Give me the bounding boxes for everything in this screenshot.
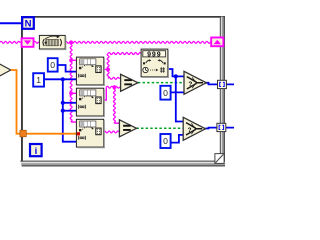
wire: constant 0 to select2 false input [171,135,184,143]
wire: node1 output down to equal1 top input [107,69,109,78]
svg-text:i: i [35,146,38,157]
for-loop border left [21,16,23,162]
wire: orange scalar down left side into loop tunnel [11,70,77,134]
for-loop border right (3D band) [220,17,221,162]
wire: cluster rope from left edge into left shift register [0,41,21,43]
i iteration terminal [30,144,42,156]
junction dot on top rope [69,40,73,44]
svg-text:999: 999 [147,51,161,59]
wire: select2 output through indexing tunnel to right edge [205,127,234,130]
equal? node E1 [121,74,138,91]
wire: riser from node1 output up to time node input [107,54,109,70]
wire: boolean equal2 result to select2 [136,127,183,129]
junction dot node1 output [106,68,110,72]
svg-text:?: ? [188,81,192,88]
wire: elbow into node3 cluster input [71,121,77,123]
constant 0 (select2 false) [160,134,170,148]
loop resize corner [215,154,224,164]
multiply node (cropped) at left edge [0,64,11,77]
wire: stub into node1 cluster input [71,59,77,61]
wire: shift register to rotate-array icon [34,41,40,43]
svg-text:0: 0 [163,88,168,98]
wire: select1 output through indexing tunnel to right edge [206,83,234,85]
wire: rotate-array output across top to right shift register [65,41,211,43]
constant 1 (length) [33,73,44,86]
wire: constant 0 to select1 false input [171,90,187,93]
N loop count terminal [22,17,34,29]
svg-text:1: 1 [36,75,41,85]
wire: constant 1 to node1 low input [44,78,77,80]
svg-text:0: 0 [50,60,55,70]
rotate 1D array node [39,35,66,50]
wire: constant 1 trunk down [63,79,77,141]
constant 0 (select1 false) [160,86,170,100]
wire: branch to node2 mid input [63,102,77,104]
wire: cluster vertical trunk feeding the three index nodes [70,42,72,122]
wire: node3 output to equal2 bottom input [104,131,120,133]
wire: node2 output riser to equal1 bottom input [104,87,107,100]
wire: branch to node2 low input [63,110,77,112]
index node U1 [76,57,104,86]
select node S1 [184,71,206,94]
wire: node1 output to junction [104,68,109,70]
svg-text:0: 0 [163,136,168,146]
left shift register [22,38,34,47]
indexing tunnel T2 [217,123,226,131]
wire: time node output down to select tops [168,69,185,76]
for-loop border top [21,16,225,18]
wire: constant 0 to node1 mid input [57,65,76,72]
svg-text:N: N [25,19,32,30]
wire: blue count wire from left edge to N terminal [0,22,23,24]
svg-text:?: ? [188,127,192,134]
junction dots on blue trunk [61,77,65,81]
junction dot node1 tee [69,58,73,62]
orange tunnel on loop border [20,130,26,137]
date-time node with 999 display [141,49,169,78]
equal? node E2 [119,120,136,137]
wire: branch down to equal2 top input [113,87,115,123]
wire: boolean equal1 result to select1 [138,82,184,84]
index node U3 [76,119,104,148]
junction dot node2 tee [69,91,73,95]
junction dot on select feed [174,74,178,78]
wire: stub into node2 cluster input [71,92,77,94]
constant 0 (node1 index) [48,58,58,71]
right shift register [211,38,223,47]
select node S2 [183,117,205,140]
red coercion dot at node3 input [77,132,80,135]
for-loop border bottom (3D band) [20,161,225,162]
index node U2 [76,88,104,117]
indexing tunnel T1 [218,80,227,88]
junction dot on equal1-bottom wire [113,85,117,89]
